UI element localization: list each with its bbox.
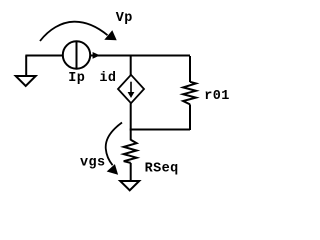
wire (left rail from ground to source) [25, 55, 62, 57]
svg-text:RSeq: RSeq [145, 162, 179, 177]
ground (left) [16, 56, 36, 87]
wire (id branch, diamond bottom down to RSeq) [130, 103, 132, 140]
svg-text:Ip: Ip [68, 71, 85, 86]
svg-text:vgs: vgs [80, 156, 106, 171]
svg-text:r01: r01 [204, 89, 230, 104]
arrow inside id source [128, 82, 135, 98]
voltage arrow vgs (curved) [106, 123, 122, 175]
resistor r01 [183, 56, 196, 130]
arrowhead (current direction of Ip) [93, 52, 100, 59]
voltage arrow Vp (curved) [40, 22, 117, 41]
dependent current source id (diamond) [118, 75, 144, 103]
wire (id branch, top) [130, 56, 132, 76]
svg-text:id: id [99, 71, 116, 86]
wire (bottom rail) [130, 129, 190, 131]
resistor RSeq [124, 140, 137, 181]
svg-text:Vp: Vp [116, 11, 133, 26]
current source Ip [63, 41, 90, 68]
ground (bottom) [120, 181, 139, 190]
wire (top rail) [91, 55, 190, 57]
